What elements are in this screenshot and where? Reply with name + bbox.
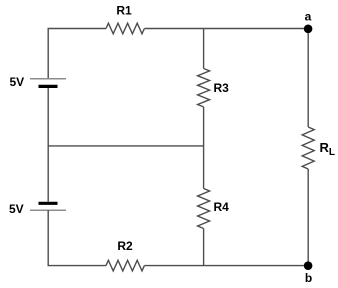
wire: top lead from R1 to node a xyxy=(144,28,308,30)
battery V2 plate thin (bottom cell) xyxy=(30,209,66,211)
wire: left column between batteries xyxy=(47,88,49,202)
wire: middle column bottom xyxy=(203,229,205,266)
wire: bottom lead from R2 to node b xyxy=(144,265,308,267)
svg-text:a: a xyxy=(305,10,312,24)
node b xyxy=(304,261,313,270)
svg-text:R3: R3 xyxy=(214,81,230,95)
svg-text:R1: R1 xyxy=(116,4,132,18)
wire: middle horizontal xyxy=(48,145,203,147)
svg-text:b: b xyxy=(305,271,312,285)
svg-text:5V: 5V xyxy=(10,75,25,89)
resistor R3 xyxy=(198,69,210,107)
battery V1 plate thick (top cell) xyxy=(39,85,58,88)
svg-text:5V: 5V xyxy=(9,202,24,216)
wire: middle column top xyxy=(203,29,205,69)
battery V2 plate thick (bottom cell) xyxy=(39,202,58,205)
svg-text:R2: R2 xyxy=(117,239,133,253)
svg-text:RL: RL xyxy=(320,140,336,158)
wire: right column top xyxy=(307,29,309,128)
wire: right column bottom xyxy=(307,169,309,266)
resistor R4 xyxy=(198,189,210,229)
resistor RL xyxy=(302,127,314,169)
wire: left column upper + top lead to R1 xyxy=(48,29,106,79)
svg-text:R4: R4 xyxy=(214,200,230,214)
resistor R1 xyxy=(106,23,144,34)
wire: middle column center xyxy=(203,107,205,189)
node a xyxy=(304,25,313,34)
resistor R2 xyxy=(106,260,144,271)
battery V1 plate thin (top cell) xyxy=(30,78,66,80)
wire: left column lower + bottom lead to R2 xyxy=(48,210,106,265)
